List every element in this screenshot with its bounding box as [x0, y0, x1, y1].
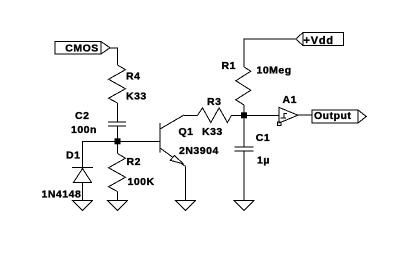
resistor R2: [109, 154, 155, 192]
svg-text:C2: C2: [75, 110, 89, 122]
capacitor C2: [71, 110, 126, 136]
transistor Q1: [160, 115, 219, 167]
wire collector to R3: [184, 114, 198, 116]
ground under D1: [73, 200, 93, 210]
svg-text:R2: R2: [127, 156, 141, 168]
ground under C1: [234, 200, 254, 210]
resistor R1: [222, 60, 292, 105]
wire node to R2: [117, 144, 119, 154]
junction node at op-amp input: [241, 112, 247, 118]
svg-text:CMOS: CMOS: [65, 43, 99, 55]
wire R3 to output node: [232, 114, 245, 116]
svg-text:R3: R3: [207, 96, 221, 108]
capacitor C1: [235, 132, 271, 167]
node CMOS flag: [55, 42, 110, 55]
svg-text:100K: 100K: [128, 176, 155, 188]
svg-text:R4: R4: [126, 70, 140, 82]
wire op-amp to Output flag: [298, 114, 312, 116]
wire R2 to ground: [117, 192, 119, 201]
svg-text:K33: K33: [202, 126, 223, 138]
ground under Q1 emitter: [176, 200, 196, 210]
svg-text:K33: K33: [126, 90, 147, 102]
svg-text:R1: R1: [222, 60, 236, 72]
svg-text:+Vdd: +Vdd: [304, 35, 334, 47]
wire emitter to ground: [185, 167, 187, 201]
svg-text:1N4148: 1N4148: [42, 188, 82, 200]
svg-text:10Meg: 10Meg: [257, 65, 292, 77]
wire base rail horizontal: [82, 140, 160, 142]
svg-text:A1: A1: [283, 94, 297, 106]
wire C2 to node: [117, 126, 119, 141]
node Output flag: [312, 110, 366, 123]
wire down to D1: [82, 141, 84, 167]
svg-text:1µ: 1µ: [257, 155, 270, 167]
junction node at base rail: [115, 138, 121, 144]
svg-text:100n: 100n: [71, 124, 97, 136]
op-amp A1: [277, 94, 298, 125]
wire D1 to ground: [82, 183, 84, 201]
resistor R4: [109, 65, 147, 103]
diode D1: [42, 150, 94, 201]
svg-text:Q1: Q1: [179, 126, 194, 138]
svg-text:Output: Output: [314, 110, 351, 122]
wire node to op-amp: [247, 114, 279, 116]
svg-text:2N3904: 2N3904: [179, 145, 219, 157]
resistor R3: [198, 96, 232, 138]
wire R4 to C2: [117, 103, 119, 122]
svg-text:C1: C1: [256, 132, 270, 144]
svg-text:D1: D1: [66, 150, 80, 162]
node Vdd wire: [244, 39, 296, 67]
node +Vdd flag: [296, 33, 344, 47]
wire C1 to ground: [243, 151, 245, 200]
wire CMOS tip to R4: [110, 48, 118, 65]
wire R1 to node: [243, 105, 245, 115]
wire node to C1: [243, 118, 245, 147]
ground under R2: [108, 200, 128, 210]
